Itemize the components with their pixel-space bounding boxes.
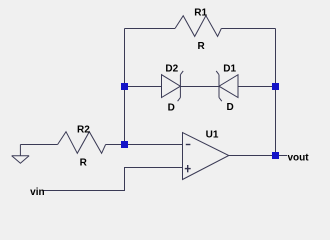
svg-text:D1: D1 [223,63,236,74]
svg-text:vout: vout [287,153,309,164]
svg-text:R2: R2 [77,125,90,136]
svg-text:R: R [197,41,205,52]
svg-text:D: D [168,102,175,113]
svg-text:vin: vin [30,187,44,198]
svg-text:R: R [80,157,88,168]
svg-text:D: D [226,102,233,113]
svg-text:D2: D2 [165,63,178,74]
svg-text:U1: U1 [206,129,219,140]
svg-text:R1: R1 [194,7,207,18]
